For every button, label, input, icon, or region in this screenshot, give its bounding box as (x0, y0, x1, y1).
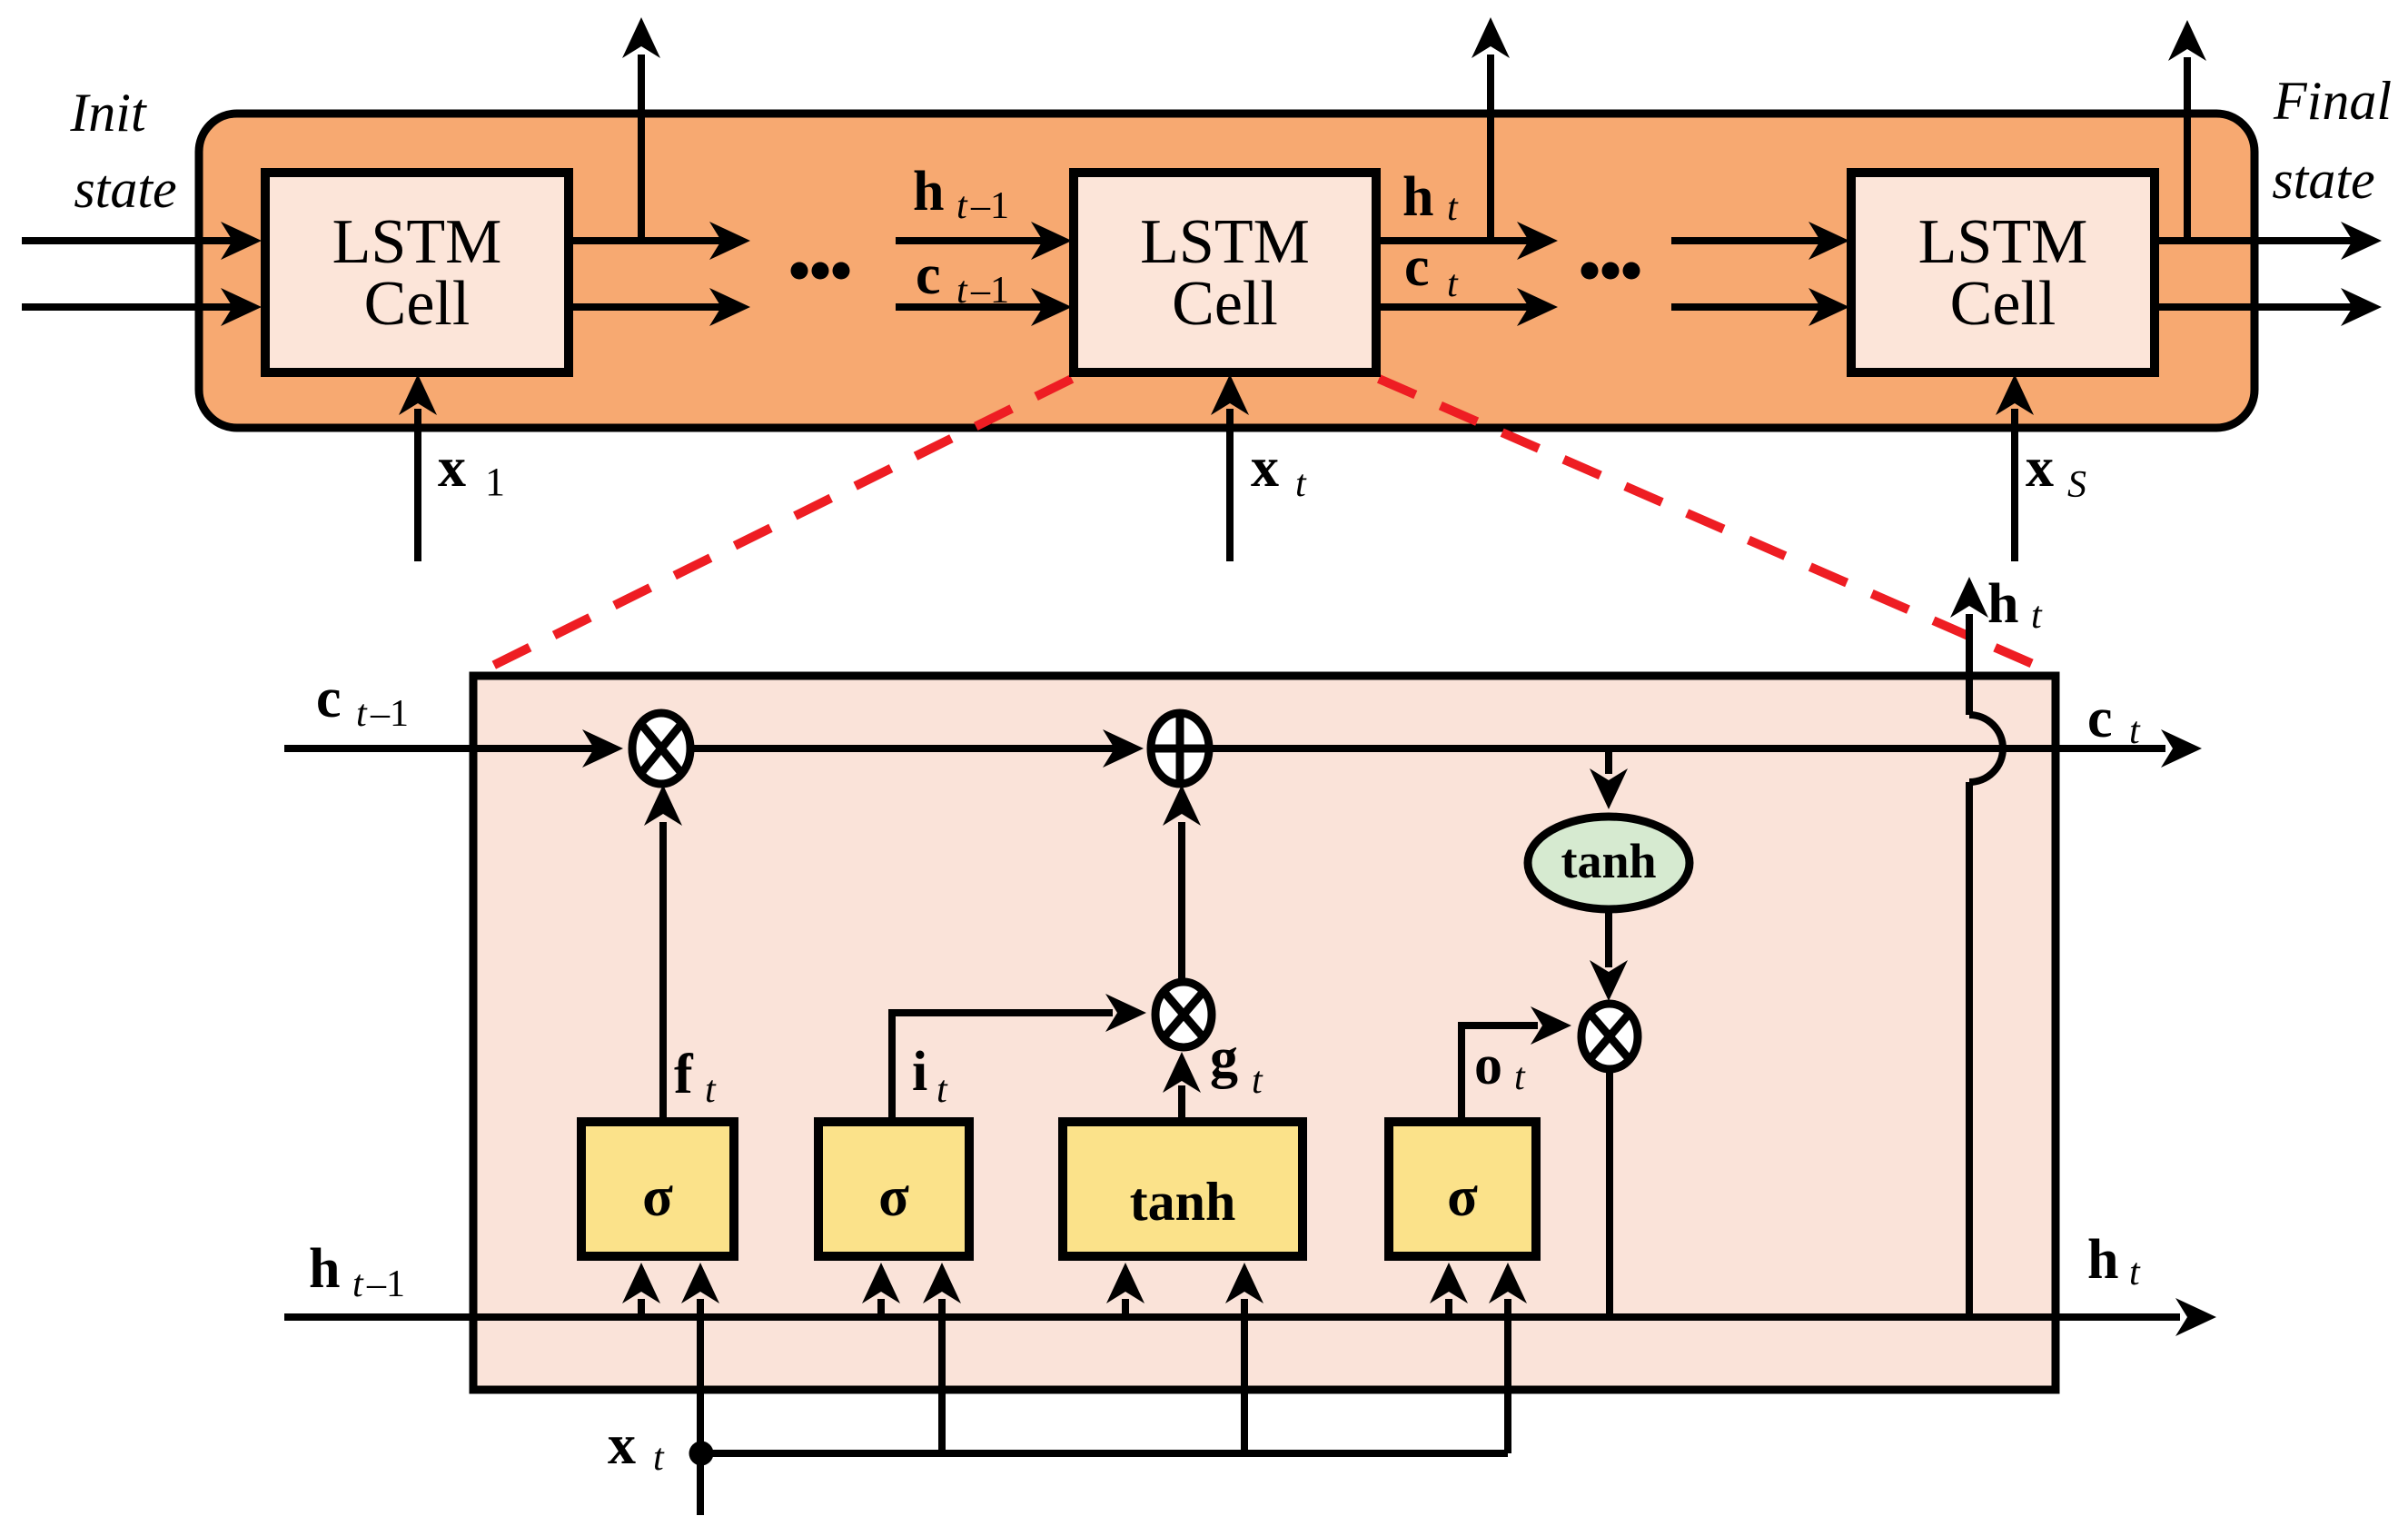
svg-text:t: t (956, 270, 968, 312)
svg-text:t: t (1447, 187, 1459, 229)
svg-text:S: S (2067, 464, 2086, 506)
svg-text:–1: –1 (970, 185, 1009, 227)
svg-text:t: t (1252, 1060, 1263, 1102)
svg-text:σ: σ (878, 1166, 909, 1228)
svg-text:LSTM: LSTM (1140, 207, 1310, 277)
svg-text:Final: Final (2273, 71, 2392, 131)
svg-text:Cell: Cell (1172, 269, 1278, 339)
svg-text:c: c (1404, 236, 1430, 298)
svg-text:t: t (705, 1069, 717, 1111)
svg-text:i: i (912, 1041, 927, 1103)
svg-text:h: h (1402, 166, 1433, 228)
svg-text:σ: σ (642, 1166, 673, 1228)
svg-text:t: t (2129, 710, 2141, 752)
svg-text:x: x (1251, 437, 1279, 499)
svg-text:g: g (1210, 1027, 1238, 1089)
svg-text:tanh: tanh (1130, 1172, 1236, 1232)
svg-text:t: t (352, 1263, 364, 1305)
svg-text:x: x (438, 437, 466, 499)
svg-text:c: c (2087, 688, 2113, 749)
svg-text:state: state (74, 159, 176, 219)
svg-text:h: h (309, 1238, 340, 1300)
svg-text:t: t (653, 1437, 665, 1479)
svg-text:t: t (936, 1069, 948, 1111)
svg-text:h: h (1987, 573, 2018, 635)
svg-text:–1: –1 (366, 1263, 405, 1305)
svg-text:t: t (356, 693, 368, 735)
svg-text:Init: Init (69, 83, 147, 143)
svg-text:–1: –1 (370, 693, 409, 735)
svg-text:t: t (2129, 1252, 2141, 1293)
svg-text:o: o (1474, 1035, 1502, 1096)
svg-text:t: t (956, 185, 968, 227)
svg-text:h: h (2087, 1229, 2118, 1291)
svg-text:LSTM: LSTM (1918, 207, 2088, 277)
svg-text:state: state (2272, 150, 2374, 210)
svg-text:x: x (608, 1414, 636, 1476)
svg-text:c: c (916, 244, 941, 306)
svg-text:t: t (1295, 463, 1307, 505)
svg-text:h: h (913, 161, 944, 223)
svg-text:c: c (316, 668, 342, 729)
svg-text:t: t (2031, 595, 2043, 637)
svg-text:t: t (1447, 263, 1459, 305)
svg-text:–1: –1 (970, 270, 1009, 312)
svg-text:t: t (1514, 1056, 1526, 1098)
svg-text:f: f (674, 1044, 694, 1105)
svg-text:σ: σ (1447, 1166, 1478, 1228)
svg-text:1: 1 (485, 460, 505, 504)
svg-text:x: x (2026, 437, 2054, 499)
svg-text:Cell: Cell (364, 269, 471, 339)
svg-text:LSTM: LSTM (332, 207, 502, 277)
svg-text:Cell: Cell (1950, 269, 2056, 339)
svg-text:tanh: tanh (1561, 834, 1656, 888)
